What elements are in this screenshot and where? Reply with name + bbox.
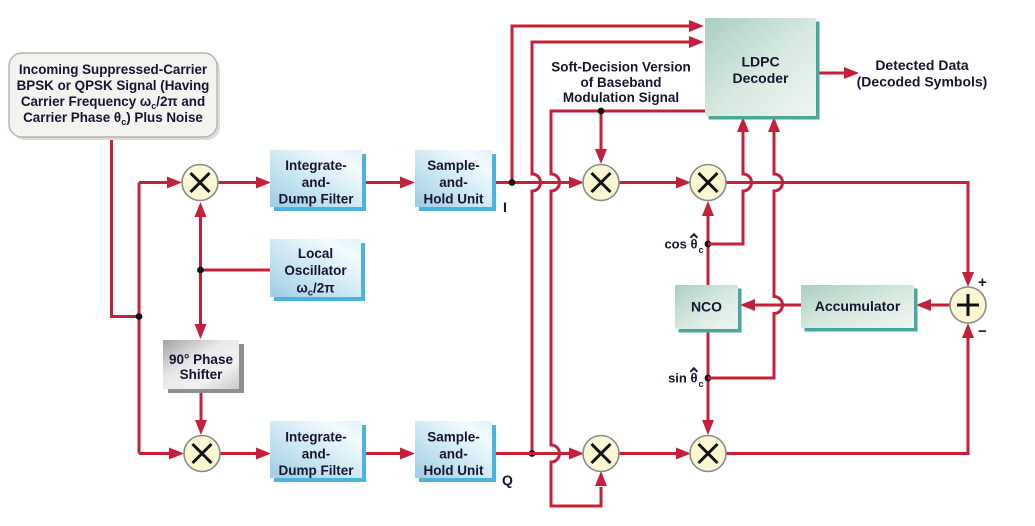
sample-and-hold unit 1 bbox=[419, 154, 496, 211]
summing junction bbox=[950, 287, 986, 323]
wire: LO node up into M1 bbox=[199, 217, 202, 270]
multiplier M3 bbox=[583, 165, 619, 201]
svg-text:NCO: NCO bbox=[691, 299, 722, 315]
wire: LDPC output to detected data bbox=[816, 72, 844, 75]
wire: incoming signal drop from label box to splitter node bbox=[112, 137, 140, 317]
wire: splitter to multiplier M1 bbox=[139, 181, 168, 184]
svg-text:and-: and- bbox=[302, 175, 331, 190]
wire: Accumulator to NCO bbox=[755, 304, 801, 307]
90 degree phase shifter bbox=[168, 344, 244, 393]
wire: S&H2 output Q line to M5 bbox=[492, 452, 569, 455]
svg-text:sin θ: sin θ bbox=[668, 371, 697, 386]
svg-text:Sample-: Sample- bbox=[427, 158, 480, 173]
svg-text:Soft-Decision Version: Soft-Decision Version bbox=[551, 60, 691, 75]
incoming signal label box bbox=[12, 56, 220, 140]
node Q bbox=[529, 450, 536, 457]
svg-text:+: + bbox=[978, 274, 987, 291]
NCO bbox=[679, 289, 742, 333]
multiplier M5 bbox=[583, 436, 619, 472]
wire: phase shifter down into M2 bbox=[200, 389, 203, 420]
svg-text:Detected Data: Detected Data bbox=[875, 57, 969, 73]
svg-text:Carrier Frequency ωc/2π and: Carrier Frequency ωc/2π and bbox=[21, 94, 205, 111]
wire: M6 output right and up into summing - bbox=[726, 338, 968, 454]
svg-text:Carrier Phase θc) Plus Noise: Carrier Phase θc) Plus Noise bbox=[23, 110, 203, 127]
svg-text:and-: and- bbox=[302, 447, 331, 462]
wire: Q node up to LDPC decoder (hops I line) bbox=[532, 42, 690, 454]
node cos bbox=[705, 241, 712, 248]
wire: LO node down into 90 phase shifter bbox=[199, 270, 202, 324]
svg-text:Sample-: Sample- bbox=[427, 430, 480, 445]
wire: S&H1 output I line to M3 bbox=[492, 181, 569, 184]
svg-text:Oscillator: Oscillator bbox=[284, 263, 347, 278]
wire: splitter to multiplier M2 bbox=[139, 452, 169, 455]
wire: cos branch up to LDPC bottom (hops M4 output) bbox=[708, 132, 752, 244]
wire: sin branch up to LDPC bottom (hops acc line and M4 output) bbox=[708, 132, 783, 378]
integrate-and-dump filter 1 bbox=[274, 154, 366, 211]
svg-text:and-: and- bbox=[439, 175, 468, 190]
integrate-and-dump filter 2 bbox=[274, 425, 366, 482]
wire: summing output to Accumulator bbox=[931, 304, 950, 307]
node LO bbox=[197, 267, 204, 274]
svg-text:c: c bbox=[699, 379, 704, 389]
wire: M1 to Integrate-and-Dump Filter 1 bbox=[218, 181, 256, 184]
svg-text:Integrate-: Integrate- bbox=[285, 158, 347, 173]
wire: I node up to LDPC decoder bbox=[512, 26, 690, 183]
wire: Local Oscillator output to node bbox=[201, 269, 271, 272]
svg-text:Hold Unit: Hold Unit bbox=[424, 192, 484, 207]
local oscillator bbox=[274, 243, 365, 301]
node sin bbox=[705, 375, 712, 382]
node A: incoming joins splitter bbox=[136, 313, 143, 320]
svg-text:and-: and- bbox=[439, 447, 468, 462]
wire: M5 to M6 bbox=[619, 452, 676, 455]
svg-text:Dump Filter: Dump Filter bbox=[278, 463, 354, 478]
wire: M4 output right and down into summing + bbox=[726, 183, 968, 273]
svg-text:I: I bbox=[503, 199, 507, 215]
svg-text:c: c bbox=[699, 245, 704, 255]
svg-text:Dump Filter: Dump Filter bbox=[278, 192, 354, 207]
svg-text:Hold Unit: Hold Unit bbox=[424, 463, 484, 478]
svg-text:(Decoded Symbols): (Decoded Symbols) bbox=[857, 74, 988, 90]
svg-text:Accumulator: Accumulator bbox=[815, 298, 901, 314]
multiplier M6 bbox=[690, 436, 726, 472]
LDPC decoder bbox=[709, 22, 820, 120]
svg-text:cos θ: cos θ bbox=[664, 237, 697, 252]
svg-text:Incoming Suppressed-Carrier: Incoming Suppressed-Carrier bbox=[19, 62, 208, 77]
wire: I/Q splitter vertical bbox=[138, 183, 141, 454]
wire: M3 to M4 bbox=[619, 181, 676, 184]
node I bbox=[509, 179, 516, 186]
wire: NCO up through cos node to M4 bbox=[707, 216, 710, 285]
svg-text:Q: Q bbox=[502, 472, 513, 488]
svg-text:BPSK or QPSK Signal (Having: BPSK or QPSK Signal (Having bbox=[17, 78, 210, 93]
svg-text:−: − bbox=[978, 323, 987, 340]
wire: IDF2 to S&H2 bbox=[361, 452, 400, 455]
svg-text:Local: Local bbox=[298, 246, 333, 261]
svg-text:LDPC: LDPC bbox=[741, 54, 779, 70]
wire: M2 to IDF2 bbox=[220, 452, 256, 455]
multiplier M4 bbox=[690, 165, 726, 201]
svg-text:Shifter: Shifter bbox=[180, 367, 224, 382]
sample-and-hold unit 2 bbox=[419, 425, 496, 482]
wire: IDF1 to Sample-and-Hold 1 bbox=[362, 181, 400, 184]
svg-text:Modulation Signal: Modulation Signal bbox=[563, 90, 679, 105]
svg-text:Integrate-: Integrate- bbox=[285, 430, 347, 445]
multiplier M2 bbox=[184, 436, 220, 472]
node soft-decision bbox=[598, 108, 605, 115]
wire: soft-decision node down into M3 bbox=[600, 111, 603, 149]
svg-text:90° Phase: 90° Phase bbox=[169, 352, 233, 367]
multiplier M1 bbox=[182, 165, 218, 201]
wire: NCO down through sin node to M6 bbox=[707, 329, 710, 420]
svg-text:Decoder: Decoder bbox=[732, 70, 789, 86]
svg-text:of Baseband: of Baseband bbox=[580, 75, 661, 90]
wire: soft-decision line from LDPC left bbox=[551, 111, 705, 506]
accumulator bbox=[805, 289, 918, 332]
